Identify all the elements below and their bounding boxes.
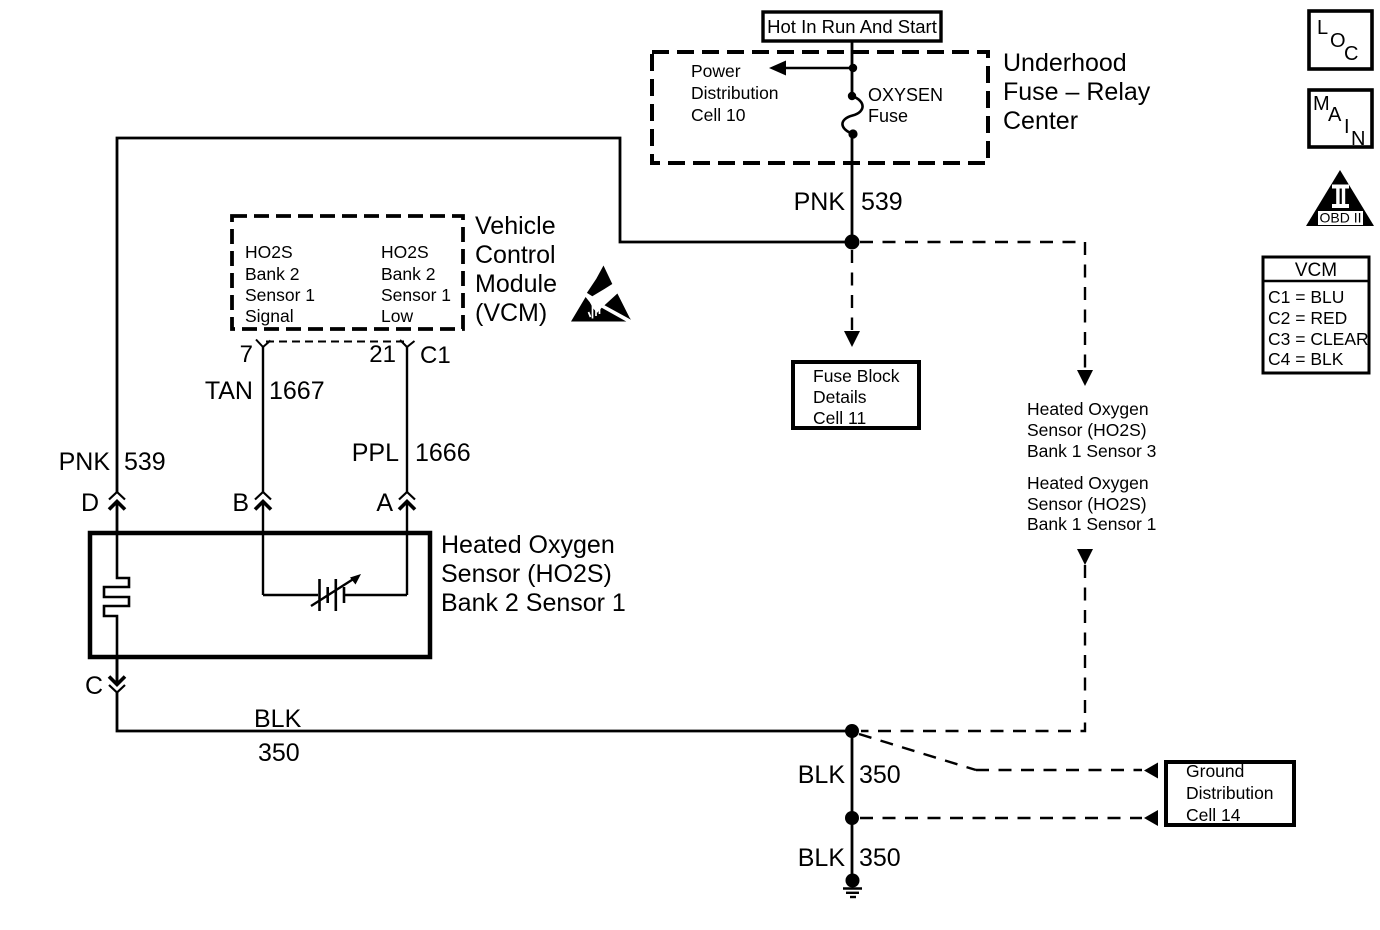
- svg-text:C4 = BLK: C4 = BLK: [1268, 349, 1344, 369]
- variable sensing element plates: [320, 579, 345, 611]
- label OXYSEN Fuse: [868, 85, 943, 126]
- svg-text:Sensor (HO2S): Sensor (HO2S): [1027, 494, 1147, 514]
- terminal A: [399, 492, 415, 595]
- svg-text:Bank 1 Sensor 1: Bank 1 Sensor 1: [1027, 514, 1156, 534]
- svg-text:Underhood: Underhood: [1003, 49, 1127, 77]
- svg-text:C: C: [1344, 43, 1358, 65]
- svg-text:PNK: PNK: [794, 188, 846, 216]
- label Heated Oxygen Sensor (HO2S) Bank 1 Sensor 3: [1027, 399, 1156, 461]
- ESD symbol: [571, 266, 631, 322]
- svg-text:A: A: [1328, 104, 1342, 126]
- node splice S108: [845, 724, 859, 738]
- label terminal D: [81, 489, 99, 517]
- svg-text:BLK: BLK: [254, 705, 302, 733]
- svg-text:I: I: [1344, 116, 1350, 138]
- svg-text:L: L: [1317, 17, 1328, 39]
- svg-text:Heated Oxygen: Heated Oxygen: [1027, 473, 1149, 493]
- svg-text:A: A: [376, 489, 393, 517]
- label BLK 350 (upper): [798, 761, 901, 789]
- svg-text:C2 = RED: C2 = RED: [1268, 308, 1347, 328]
- svg-text:Vehicle: Vehicle: [475, 212, 556, 240]
- svg-text:(VCM): (VCM): [475, 299, 547, 327]
- svg-text:Distribution: Distribution: [1186, 783, 1274, 803]
- svg-text:PNK: PNK: [59, 448, 111, 476]
- svg-text:C: C: [85, 672, 103, 700]
- svg-text:Signal: Signal: [245, 306, 294, 326]
- svg-text:7: 7: [240, 341, 253, 368]
- svg-text:Fuse: Fuse: [868, 106, 908, 126]
- label PNK 539 (left): [59, 448, 166, 476]
- svg-text:N: N: [1351, 128, 1365, 150]
- svg-text:Heated Oxygen: Heated Oxygen: [1027, 399, 1149, 419]
- svg-text:539: 539: [124, 448, 166, 476]
- arrow to Power Distribution: [769, 61, 857, 76]
- node splice lower: [845, 811, 859, 825]
- label VCM pin functions right: [381, 242, 451, 326]
- svg-text:Cell 11: Cell 11: [813, 408, 866, 428]
- svg-text:Cell 10: Cell 10: [691, 105, 746, 125]
- svg-text:D: D: [81, 489, 99, 517]
- svg-text:Fuse – Relay: Fuse – Relay: [1003, 78, 1151, 106]
- OBD II icon: [1306, 170, 1374, 226]
- svg-text:TAN: TAN: [205, 377, 253, 405]
- label Underhood Fuse-Relay Center: [1003, 49, 1151, 135]
- label terminal C: [85, 672, 103, 700]
- svg-text:PPL: PPL: [352, 439, 399, 467]
- svg-text:350: 350: [859, 844, 901, 872]
- label terminal B: [232, 489, 249, 517]
- svg-text:OXYSEN: OXYSEN: [868, 85, 943, 105]
- label TAN 1667: [205, 377, 325, 405]
- VCM connector C1 dashed line: [266, 341, 404, 343]
- wire BLK 350 vertical: [851, 731, 854, 818]
- dashed wire to Ground Distribution (lower): [860, 810, 1158, 826]
- svg-text:C3 = CLEAR: C3 = CLEAR: [1268, 329, 1369, 349]
- svg-text:BLK: BLK: [798, 761, 846, 789]
- wire from Hot box into fuse center: [851, 41, 854, 96]
- label Power Distribution Cell 10: [691, 61, 779, 125]
- svg-text:OBD II: OBD II: [1319, 210, 1361, 226]
- terminal C: [109, 657, 125, 693]
- dashed wire to Fuse Block Details: [844, 250, 860, 347]
- Underhood Fuse-Relay Center dashed box: [652, 52, 988, 163]
- label pin 21: [369, 341, 396, 368]
- svg-text:Distribution: Distribution: [691, 83, 779, 103]
- svg-text:Details: Details: [813, 387, 867, 407]
- pin 21 connector: [400, 340, 415, 492]
- svg-text:B: B: [232, 489, 249, 517]
- svg-text:Sensor 1: Sensor 1: [245, 285, 315, 305]
- label VCM pin functions left: [245, 242, 315, 326]
- dashed wire from Bank 1 sensors to ground splice: [861, 549, 1093, 731]
- Ground Distribution Cell 14 box: [1166, 761, 1294, 825]
- svg-text:HO2S: HO2S: [381, 242, 429, 262]
- label BLK 350 (horizontal run): [254, 705, 302, 767]
- Vehicle Control Module dashed box: [232, 216, 463, 329]
- svg-text:21: 21: [369, 341, 396, 368]
- MAIN icon: [1309, 90, 1372, 150]
- svg-text:Low: Low: [381, 306, 413, 326]
- svg-text:Sensor (HO2S): Sensor (HO2S): [441, 560, 612, 588]
- svg-text:Heated Oxygen: Heated Oxygen: [441, 531, 615, 559]
- svg-text:Sensor (HO2S): Sensor (HO2S): [1027, 420, 1147, 440]
- label Heated Oxygen Sensor (HO2S) Bank 2 Sensor 1: [441, 531, 626, 617]
- svg-text:Module: Module: [475, 270, 557, 298]
- fuse OXYSEN: [842, 92, 862, 139]
- svg-text:Fuse Block: Fuse Block: [813, 366, 900, 386]
- label PPL 1666: [352, 439, 471, 467]
- svg-text:Bank 2: Bank 2: [245, 264, 299, 284]
- label pin 7: [240, 341, 253, 368]
- label terminal A: [376, 489, 393, 517]
- label Vehicle Control Module (VCM): [475, 212, 557, 327]
- svg-text:Hot In Run And Start: Hot In Run And Start: [767, 16, 937, 37]
- label Heated Oxygen Sensor (HO2S) Bank 1 Sensor 1: [1027, 473, 1156, 534]
- svg-text:Power: Power: [691, 61, 741, 81]
- HO2S sensor box: [90, 533, 430, 657]
- label connector C1: [420, 342, 451, 369]
- terminal B: [255, 492, 271, 533]
- terminal D: [109, 492, 125, 533]
- label PNK 539: [794, 188, 903, 216]
- Fuse Block Details Cell 11 box: [793, 362, 919, 428]
- pin 7 connector: [256, 340, 271, 493]
- svg-text:C1: C1: [420, 342, 451, 369]
- dashed wire to HO2S Bank 1 sensors: [860, 242, 1093, 386]
- node S101 junction: [845, 235, 860, 250]
- svg-text:Bank 2 Sensor 1: Bank 2 Sensor 1: [441, 589, 626, 617]
- svg-text:Bank 2: Bank 2: [381, 264, 435, 284]
- ground G103: [843, 874, 862, 898]
- svg-text:VCM: VCM: [1295, 260, 1337, 281]
- svg-text:1667: 1667: [269, 377, 325, 405]
- svg-text:Control: Control: [475, 241, 556, 269]
- svg-text:C1 = BLU: C1 = BLU: [1268, 287, 1344, 307]
- svg-text:HO2S: HO2S: [245, 242, 293, 262]
- svg-text:Ground: Ground: [1186, 761, 1244, 781]
- label BLK 350 (lower): [798, 844, 901, 872]
- svg-text:539: 539: [861, 188, 903, 216]
- heater element: [104, 533, 129, 684]
- svg-text:350: 350: [859, 761, 901, 789]
- wire BLK 350 to ground: [851, 818, 854, 876]
- sensing element wire: [263, 533, 407, 595]
- wire PNK 539 to HO2S (solid loop left): [117, 138, 852, 492]
- power feed label box "Hot In Run And Start": [763, 12, 941, 41]
- wire PNK 539 (fuse to junction): [851, 134, 854, 242]
- svg-text:Sensor 1: Sensor 1: [381, 285, 451, 305]
- dashed wire to Ground Distribution (upper): [859, 734, 1158, 779]
- LOC icon: [1309, 11, 1372, 69]
- svg-text:350: 350: [258, 739, 300, 767]
- wire BLK 350 (C to splice): [117, 693, 852, 732]
- VCM connector color table: [1263, 257, 1369, 373]
- svg-text:Center: Center: [1003, 107, 1078, 135]
- variable element arrow: [311, 574, 361, 606]
- svg-text:Cell 14: Cell 14: [1186, 805, 1241, 825]
- svg-text:1666: 1666: [415, 439, 471, 467]
- svg-text:BLK: BLK: [798, 844, 846, 872]
- svg-text:Bank 1 Sensor 3: Bank 1 Sensor 3: [1027, 441, 1156, 461]
